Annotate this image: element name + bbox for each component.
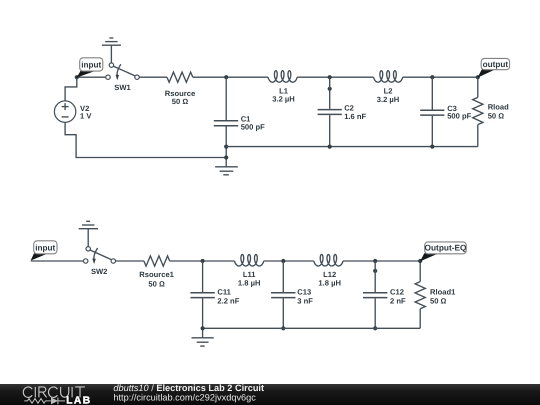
capacitor C1 [214, 77, 265, 166]
node C2 stub [328, 87, 332, 91]
svg-text:2.2 nF: 2.2 nF [217, 297, 239, 306]
svg-text:http://circuitlab.com/c292jvxd: http://circuitlab.com/c292jvxdqv6gc [113, 393, 256, 403]
logo squiggle + diode [24, 398, 65, 405]
wire SW1 to Rsource [139, 76, 167, 78]
svg-text:L12: L12 [323, 270, 336, 279]
wire L2 to output node [403, 76, 478, 78]
switch SW2 [84, 247, 116, 276]
svg-text:1.6 nF: 1.6 nF [344, 112, 366, 121]
svg-text:dbutts10 / Electronics Lab 2 C: dbutts10 / Electronics Lab 2 Circuit [113, 383, 264, 393]
resistor Rsource1 [139, 256, 174, 289]
svg-text:input: input [35, 243, 55, 252]
resistor Rload [473, 77, 509, 146]
ground (above SW2) [79, 221, 98, 246]
node C12 bottom [373, 326, 377, 330]
svg-text:3 nF: 3 nF [297, 297, 313, 306]
node C3 bottom [430, 145, 434, 149]
ground (above SW1) [102, 38, 121, 63]
node Output-EQ [418, 259, 422, 263]
svg-text:500 pF: 500 pF [447, 112, 471, 121]
svg-text:SW2: SW2 [91, 267, 107, 276]
node rail-right [224, 145, 228, 149]
node C13 top [281, 259, 285, 263]
svg-text:500 pF: 500 pF [241, 122, 265, 131]
inductor L2 [374, 71, 403, 105]
svg-text:Rload1: Rload1 [430, 288, 456, 297]
capacitor C12 [363, 261, 406, 328]
svg-text:output: output [483, 60, 509, 69]
node C13 bottom [281, 326, 285, 330]
node input (junction) [75, 75, 79, 79]
svg-text:50 Ω: 50 Ω [488, 111, 505, 120]
svg-text:1 V: 1 V [80, 112, 92, 121]
node rail-left [224, 155, 228, 159]
capacitor C11 [190, 261, 239, 338]
svg-text:50 Ω: 50 Ω [172, 97, 189, 106]
svg-text:SW1: SW1 [114, 83, 131, 92]
svg-text:C13: C13 [297, 288, 311, 297]
node C3 top [430, 75, 434, 79]
capacitor C3 [420, 77, 471, 146]
svg-text:Rsource1: Rsource1 [139, 270, 174, 279]
inductor L11 [235, 255, 264, 288]
node C2 bottom [328, 145, 332, 149]
svg-text:L11: L11 [243, 270, 256, 279]
wire SW2 to Rsource1 [116, 260, 144, 262]
ground (below C11 rail) [192, 338, 214, 346]
svg-text:Rload: Rload [488, 102, 509, 111]
node C12 top [373, 259, 377, 263]
wire L12 to Output-EQ node [343, 260, 420, 262]
flag input (bottom) [31, 241, 57, 261]
node C1 top [224, 75, 228, 79]
svg-text:Output-EQ: Output-EQ [425, 243, 467, 253]
node rail-ground [201, 326, 205, 330]
flag output [478, 58, 510, 77]
svg-text:2 nF: 2 nF [390, 297, 406, 306]
resistor Rload1 [415, 261, 456, 328]
flag input (top) [77, 58, 103, 78]
wire V2 bottom jog to ground rail [65, 122, 226, 157]
wire input node down-jog to V2 top [65, 77, 77, 101]
inductor L1 [268, 71, 297, 104]
node C12 stub [373, 269, 377, 273]
svg-text:50 Ω: 50 Ω [430, 297, 447, 306]
wire Rsource to L1 (junction at C1) [193, 76, 268, 78]
wire input to SW2 [31, 260, 84, 262]
logo CIRCUIT (stroke letters) [23, 387, 85, 398]
capacitor C2 [318, 77, 367, 146]
flag Output-EQ [420, 242, 467, 262]
wire Rsource1 to L11 [170, 260, 235, 262]
svg-text:3.2 µH: 3.2 µH [377, 95, 400, 104]
resistor Rsource [165, 72, 195, 106]
svg-text:1.8 µH: 1.8 µH [238, 279, 261, 288]
svg-text:input: input [81, 61, 101, 70]
bottom rail (top circuit) [226, 146, 478, 148]
svg-text:1.8 µH: 1.8 µH [318, 279, 341, 288]
node C11 top [201, 259, 205, 263]
ground (below C1) [215, 167, 238, 175]
wire L11 to L12 [264, 260, 314, 262]
switch SW1 [106, 63, 139, 92]
svg-text:LAB: LAB [66, 395, 91, 405]
svg-text:50 Ω: 50 Ω [148, 280, 165, 289]
wire input node to SW1 [77, 76, 106, 78]
node output [476, 75, 480, 79]
svg-text:C12: C12 [390, 288, 404, 297]
svg-text:C11: C11 [217, 288, 231, 297]
capacitor C13 [271, 261, 313, 328]
svg-text:3.2 µH: 3.2 µH [272, 95, 295, 104]
node C2 top [328, 75, 332, 79]
voltage source V2 [54, 101, 92, 122]
inductor L12 [314, 255, 343, 288]
wire L1 to L2 [297, 76, 373, 78]
bottom rail (bottom circuit) [203, 327, 421, 329]
